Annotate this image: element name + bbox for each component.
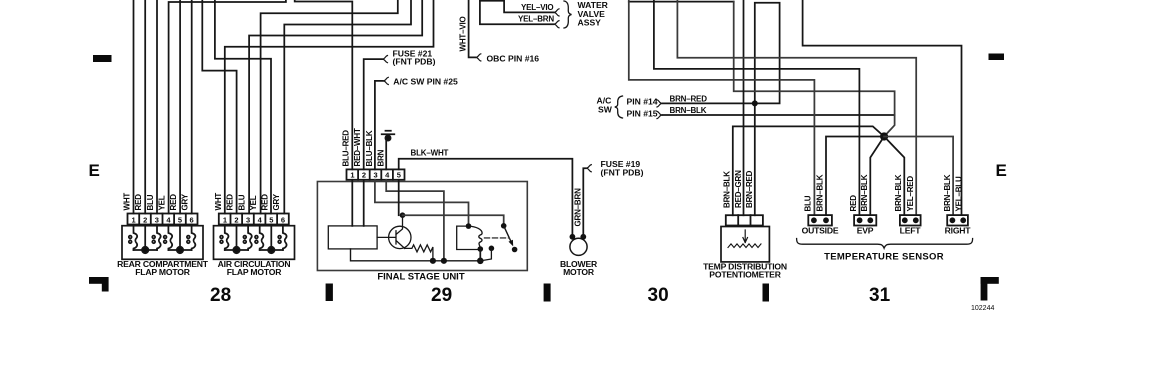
svg-text:OBC PIN #16: OBC PIN #16 [487,53,540,63]
svg-text:GRN–BRN: GRN–BRN [573,188,582,227]
hook pin14 [657,100,663,107]
node rail dot 2 [441,258,447,264]
brace temperature sensor group [797,239,973,249]
wire FSU pin2 RED-WHT to fuse 21 [364,59,382,169]
label YEL-VIO [521,3,553,12]
svg-text:28: 28 [210,285,231,306]
label motor2 pin6 GRY [272,193,281,210]
svg-text:5: 5 [397,171,401,180]
motor M1 winding 1 [134,225,138,251]
svg-text:POTENTIOMETER: POTENTIOMETER [709,270,781,280]
svg-text:RED–GRN: RED–GRN [734,170,743,208]
hook YEL-VIO [554,9,560,16]
blower motor circle [570,238,587,255]
wire YEL-BRN water valve [480,1,554,24]
svg-text:RED: RED [849,195,858,212]
motor M1 bottom wire left + junction [134,225,158,251]
hook AC SW pin 25 [383,77,389,84]
svg-text:YEL: YEL [158,195,167,210]
wire LEFT YEL-RED from top [677,0,916,215]
connector pot 3 pins [726,215,763,225]
motor M2 bottom wire left + junction [225,225,248,251]
wire FSU pin1 BLU-RED [295,0,353,169]
caption temp distribution potentiometer [703,262,787,280]
label motor2 pin1 WHT [214,193,223,211]
relay contact fixed [489,246,495,252]
svg-text:EVP: EVP [857,226,874,236]
wire collector node to switch arm [403,215,504,226]
label FUSE 21 [393,49,436,67]
svg-text:BRN–RED: BRN–RED [745,170,754,208]
svg-text:WHT–VIO: WHT–VIO [459,16,468,51]
wire RED-GRN from top to pot [743,0,745,215]
svg-text:E: E [89,161,100,180]
hook fuse 21 [382,56,388,63]
wire star to EVP BRN-BLK [870,137,884,216]
label BLU-BLK (FSU pin3) [365,130,374,166]
label OUTSIDE BLU [803,195,812,211]
svg-text:BRN–BLK: BRN–BLK [815,174,824,211]
svg-text:GRY: GRY [272,193,281,210]
svg-text:FINAL STAGE UNIT: FINAL STAGE UNIT [377,272,464,283]
grid tick bar 2 [544,284,551,302]
wire motor2 pin1 WHT [225,0,434,214]
registration bar top right [989,54,1005,61]
wire fixed contact to rail [481,248,491,260]
svg-text:PIN #14: PIN #14 [627,96,658,106]
wire star to OUTSIDE BRN-BLK [826,137,884,216]
FSU box [317,182,527,271]
wire BRN-RED pin14 to pot [663,3,780,216]
svg-text:BRN–BLK: BRN–BLK [894,174,903,211]
wire WHT-VIO to OBC pin16 [469,0,476,57]
motor M2 winding 4 [283,225,287,251]
caption motor M2 [218,259,291,277]
label pot RED-GRN [734,170,743,208]
label OUTSIDE BRN-BLK [815,174,824,211]
svg-text:6: 6 [190,215,194,224]
svg-text:WHT: WHT [214,193,223,211]
svg-text:6: 6 [281,215,285,224]
svg-text:RED: RED [226,194,235,211]
grid tick bar 1 [326,284,333,302]
wire FSU pin4 to bottom rail [386,180,444,261]
label RIGHT YEL-BLU [954,176,963,211]
svg-text:(FNT PDB): (FNT PDB) [393,57,436,67]
label motor2 pin3 BLU [237,194,246,210]
label motor1 pin6 GRY [181,193,190,210]
hook fuse 19 [586,165,592,172]
label motor2 pin2 RED [226,194,235,211]
connector motor2 pins 1-6 [219,214,289,225]
svg-text:RIGHT: RIGHT [945,226,972,236]
svg-text:TEMPERATURE SENSOR: TEMPERATURE SENSOR [824,252,944,263]
caption OUTSIDE [802,226,839,236]
svg-text:FLAP MOTOR: FLAP MOTOR [135,267,190,277]
motor M1 winding 2 [157,225,161,251]
wire motor1 pin5 RED [179,0,181,214]
svg-text:102244: 102244 [971,305,994,312]
wire motor1 pin3 BLU [156,0,158,214]
label WATER VALVE ASSY [578,0,609,27]
caption motor M1 [117,259,209,277]
svg-text:31: 31 [869,285,891,306]
wire EVP RED from top [654,0,860,215]
resistor R1 emitter [405,245,433,261]
motor M2 winding 2 [248,225,252,251]
label motor1 pin3 BLU [146,194,155,210]
label BRN-BLK [670,106,707,115]
svg-text:RED–WHT: RED–WHT [353,128,362,166]
svg-text:(FNT PDB): (FNT PDB) [601,167,644,177]
node BRN-RED junction [752,100,758,106]
node rail dot 1 [430,258,436,264]
svg-text:BRN–BLK: BRN–BLK [723,171,732,208]
connector OUTSIDE sensor [808,215,832,225]
label AC SW PIN 25 [393,76,458,86]
svg-text:PIN #15: PIN #15 [627,109,658,119]
wire motor2 pin2 RED [202,0,236,214]
caption LEFT [900,226,922,236]
svg-text:BLU–RED: BLU–RED [342,130,351,167]
svg-text:1: 1 [132,215,136,224]
wire FSU pin2 into module [363,180,365,226]
svg-text:OUTSIDE: OUTSIDE [802,226,839,236]
svg-text:BLU: BLU [803,195,812,211]
pot box [721,227,769,262]
svg-text:WHT: WHT [123,193,132,211]
svg-text:YEL–BRN: YEL–BRN [518,15,554,24]
corner mark bottom right [981,277,999,284]
wire FSU pin1 into module [351,180,353,226]
wire FSU pin5 BLK-WHT to blower [399,159,573,237]
svg-text:5: 5 [269,215,273,224]
wire motor2 pin6 GRY [284,0,411,214]
svg-text:ASSY: ASSY [578,17,602,27]
label OBC PIN 16 [487,53,540,63]
caption EVP [857,226,874,236]
label RIGHT BRN-BLK [943,174,952,211]
svg-text:E: E [996,161,1007,180]
wire module bottom to rail [351,249,481,261]
corner mark bottom left [89,277,109,284]
svg-text:BRN–RED: BRN–RED [670,95,708,104]
hook OBC pin16 [475,54,481,61]
svg-text:YEL–RED: YEL–RED [906,176,915,212]
label BLK-WHT [411,149,449,158]
svg-text:YEL: YEL [249,195,258,210]
svg-text:YEL–BLU: YEL–BLU [954,176,963,211]
label BLU-RED (FSU pin1) [342,130,351,167]
hook pin15 [657,111,663,118]
hook YEL-BRN [554,21,560,28]
label motor1 pin2 RED [134,194,143,211]
label BRN-RED [670,95,708,104]
label RED-WHT (FSU pin2) [353,128,362,166]
connector motor1 pins 1-6 [128,214,198,225]
wire motor2 pin3 BLU [249,0,422,214]
grid tick bar 3 [763,284,770,302]
wire motor1 pin4 YEL [169,0,286,214]
svg-text:30: 30 [648,285,669,306]
svg-text:2: 2 [234,215,238,224]
wire coil bottom to rail [479,249,481,261]
svg-text:RED: RED [169,194,178,211]
relay switch arm with arrow [501,223,507,229]
svg-text:BLU–BLK: BLU–BLK [365,130,374,166]
motor M2 bottom wire right + junction [260,225,283,251]
label BRN (FSU pin4) [376,149,385,166]
svg-text:3: 3 [246,215,250,224]
FSU internal module box [328,226,377,249]
node star junction [880,132,888,140]
label motor2 pin5 RED [261,194,270,211]
caption FINAL STAGE UNIT [377,272,464,283]
motor M1 winding 4 [192,225,196,251]
relay actuation dashed link [485,237,510,239]
svg-text:FLAP MOTOR: FLAP MOTOR [227,267,282,277]
svg-text:A/C SW PIN #25: A/C SW PIN #25 [393,76,458,86]
label AC SW pins 14 15 [597,95,658,118]
wire star to LEFT BRN-BLK [884,137,904,216]
node collector junction [400,212,406,218]
label pot BRN-RED [745,170,754,208]
wire motor1 pin1 WHT [133,0,135,214]
label motor1 pin1 WHT [123,193,132,211]
svg-text:3: 3 [155,215,159,224]
label motor1 pin4 YEL [158,195,167,210]
svg-text:SW: SW [598,104,613,114]
wire motor1 pin6 GRY [191,0,193,214]
label pot BRN-BLK [723,171,732,208]
label EVP RED [849,195,858,212]
wire BRN-BLK feed from top to star [734,2,895,137]
label motor2 pin4 YEL [249,195,258,210]
svg-text:BLU: BLU [146,194,155,210]
wire FSU pin3 BLU-BLK to AC SW pin 25 [375,81,383,169]
svg-text:YEL–VIO: YEL–VIO [521,3,553,12]
svg-text:29: 29 [431,285,452,306]
svg-text:GRY: GRY [181,193,190,210]
label WHT-VIO [459,16,468,51]
wire RIGHT YEL-BLU from top [803,0,962,215]
connector EVP sensor [854,215,876,225]
brace water valve assy [564,1,572,28]
motor M1 winding 3 [168,225,172,251]
svg-text:LEFT: LEFT [900,226,922,236]
node blower terminal right [580,234,586,240]
brace AC SW [615,96,623,118]
registration bar top left [93,55,112,62]
ground at FSU pin4 [382,131,395,170]
caption blower motor [560,259,598,277]
motor M2 air circulation flap motor box [214,226,295,260]
svg-text:RED: RED [134,194,143,211]
wire motor1 pin2 RED [144,0,146,214]
svg-text:BLK–WHT: BLK–WHT [411,149,449,158]
wire GRN-BRN to fuse 19 [583,168,586,237]
wire YEL-VIO water valve [480,1,554,13]
label FUSE 19 [601,159,644,178]
relay K1 coil loops [469,226,483,249]
wire star to RIGHT BRN-BLK [884,137,953,216]
svg-text:2: 2 [143,215,147,224]
svg-text:BRN–BLK: BRN–BLK [860,174,869,211]
wire FSU pin5 to collector node [398,180,400,215]
wire pot BRN-BLK to star [733,126,884,215]
svg-text:2: 2 [362,171,366,180]
relay K1 coil box [457,226,481,249]
label LEFT BRN-BLK [894,174,903,211]
node relay coil bottom [478,246,484,252]
wire BRN-BLK pin15 [663,114,895,116]
svg-text:BRN–BLK: BRN–BLK [943,174,952,211]
caption TEMPERATURE SENSOR [824,252,944,263]
svg-text:BLU: BLU [237,194,246,210]
wire OUTSIDE BLU from top [629,0,815,215]
wire FSU pin3 to relay coil [375,180,469,226]
svg-text:MOTOR: MOTOR [563,267,595,277]
svg-text:1: 1 [223,215,227,224]
connector RIGHT sensor [947,215,968,225]
node blower terminal left [570,234,576,240]
motor M2 winding 1 [225,225,229,251]
caption RIGHT [945,226,972,236]
node rail dot 3 [477,258,484,265]
connector LEFT sensor [900,215,921,225]
wire motor2 pin5 RED [215,0,271,214]
svg-text:RED: RED [261,194,270,211]
transistor Q1 [389,226,411,248]
motor M1 bottom wire right + junction [168,225,191,251]
wire top jumper [629,1,734,3]
node relay coil top [466,223,472,229]
svg-text:3: 3 [374,171,378,180]
wire motor2 pin4 YEL [261,0,398,214]
connector FSU pins 1-5 [347,169,405,179]
label motor1 pin5 RED [169,194,178,211]
label EVP BRN-BLK [860,174,869,211]
svg-text:1: 1 [350,171,354,180]
svg-text:5: 5 [178,215,182,224]
svg-text:BRN: BRN [376,149,385,166]
motor M2 winding 3 [260,225,264,251]
motor M1 rear compartment flap motor box [122,226,203,260]
svg-text:BRN–BLK: BRN–BLK [670,106,707,115]
label GRN-BRN [573,188,582,227]
potentiometer R wiper arrow and track [743,230,748,243]
label YEL-BRN [518,15,554,24]
label LEFT YEL-RED [906,176,915,212]
